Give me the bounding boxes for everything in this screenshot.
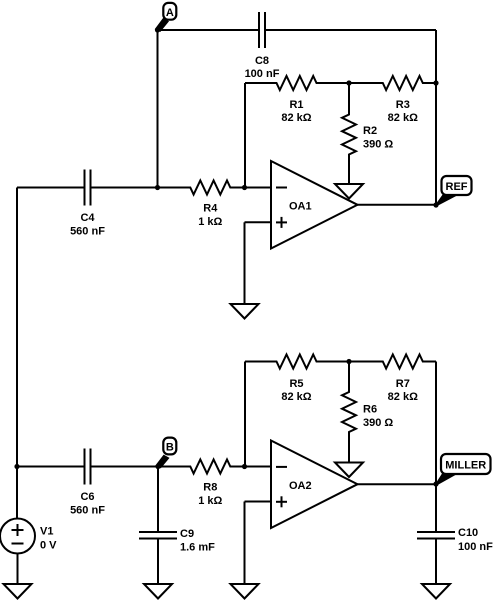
svg-text:R4: R4: [203, 203, 218, 215]
svg-text:A: A: [166, 7, 174, 19]
svg-text:82 kΩ: 82 kΩ: [388, 391, 418, 403]
svg-text:R6: R6: [363, 404, 377, 416]
svg-text:390 Ω: 390 Ω: [363, 417, 393, 429]
svg-text:100 nF: 100 nF: [458, 541, 493, 553]
svg-text:C10: C10: [458, 527, 478, 539]
svg-text:1.6 mF: 1.6 mF: [180, 542, 215, 554]
svg-text:C9: C9: [180, 528, 194, 540]
svg-text:390 Ω: 390 Ω: [363, 139, 393, 151]
svg-text:C6: C6: [80, 491, 94, 503]
svg-text:R3: R3: [396, 99, 410, 111]
svg-text:REF: REF: [446, 181, 468, 193]
svg-text:R5: R5: [289, 378, 303, 390]
svg-text:1 kΩ: 1 kΩ: [198, 216, 222, 228]
svg-text:R7: R7: [396, 378, 410, 390]
svg-text:560 nF: 560 nF: [70, 505, 105, 517]
svg-text:1 kΩ: 1 kΩ: [198, 495, 222, 507]
svg-text:82 kΩ: 82 kΩ: [281, 112, 311, 124]
svg-text:B: B: [166, 442, 174, 454]
svg-text:R1: R1: [289, 99, 303, 111]
svg-text:OA1: OA1: [289, 201, 312, 213]
svg-text:0 V: 0 V: [40, 540, 57, 552]
svg-text:560 nF: 560 nF: [70, 226, 105, 238]
svg-text:82 kΩ: 82 kΩ: [281, 391, 311, 403]
svg-text:C8: C8: [255, 55, 269, 67]
svg-text:82 kΩ: 82 kΩ: [388, 112, 418, 124]
svg-text:V1: V1: [40, 526, 53, 538]
svg-text:C4: C4: [80, 212, 95, 224]
svg-text:R2: R2: [363, 125, 377, 137]
svg-text:MILLER: MILLER: [445, 460, 486, 472]
svg-text:100 nF: 100 nF: [245, 68, 280, 80]
svg-text:R8: R8: [203, 482, 217, 494]
svg-text:OA2: OA2: [289, 480, 312, 492]
